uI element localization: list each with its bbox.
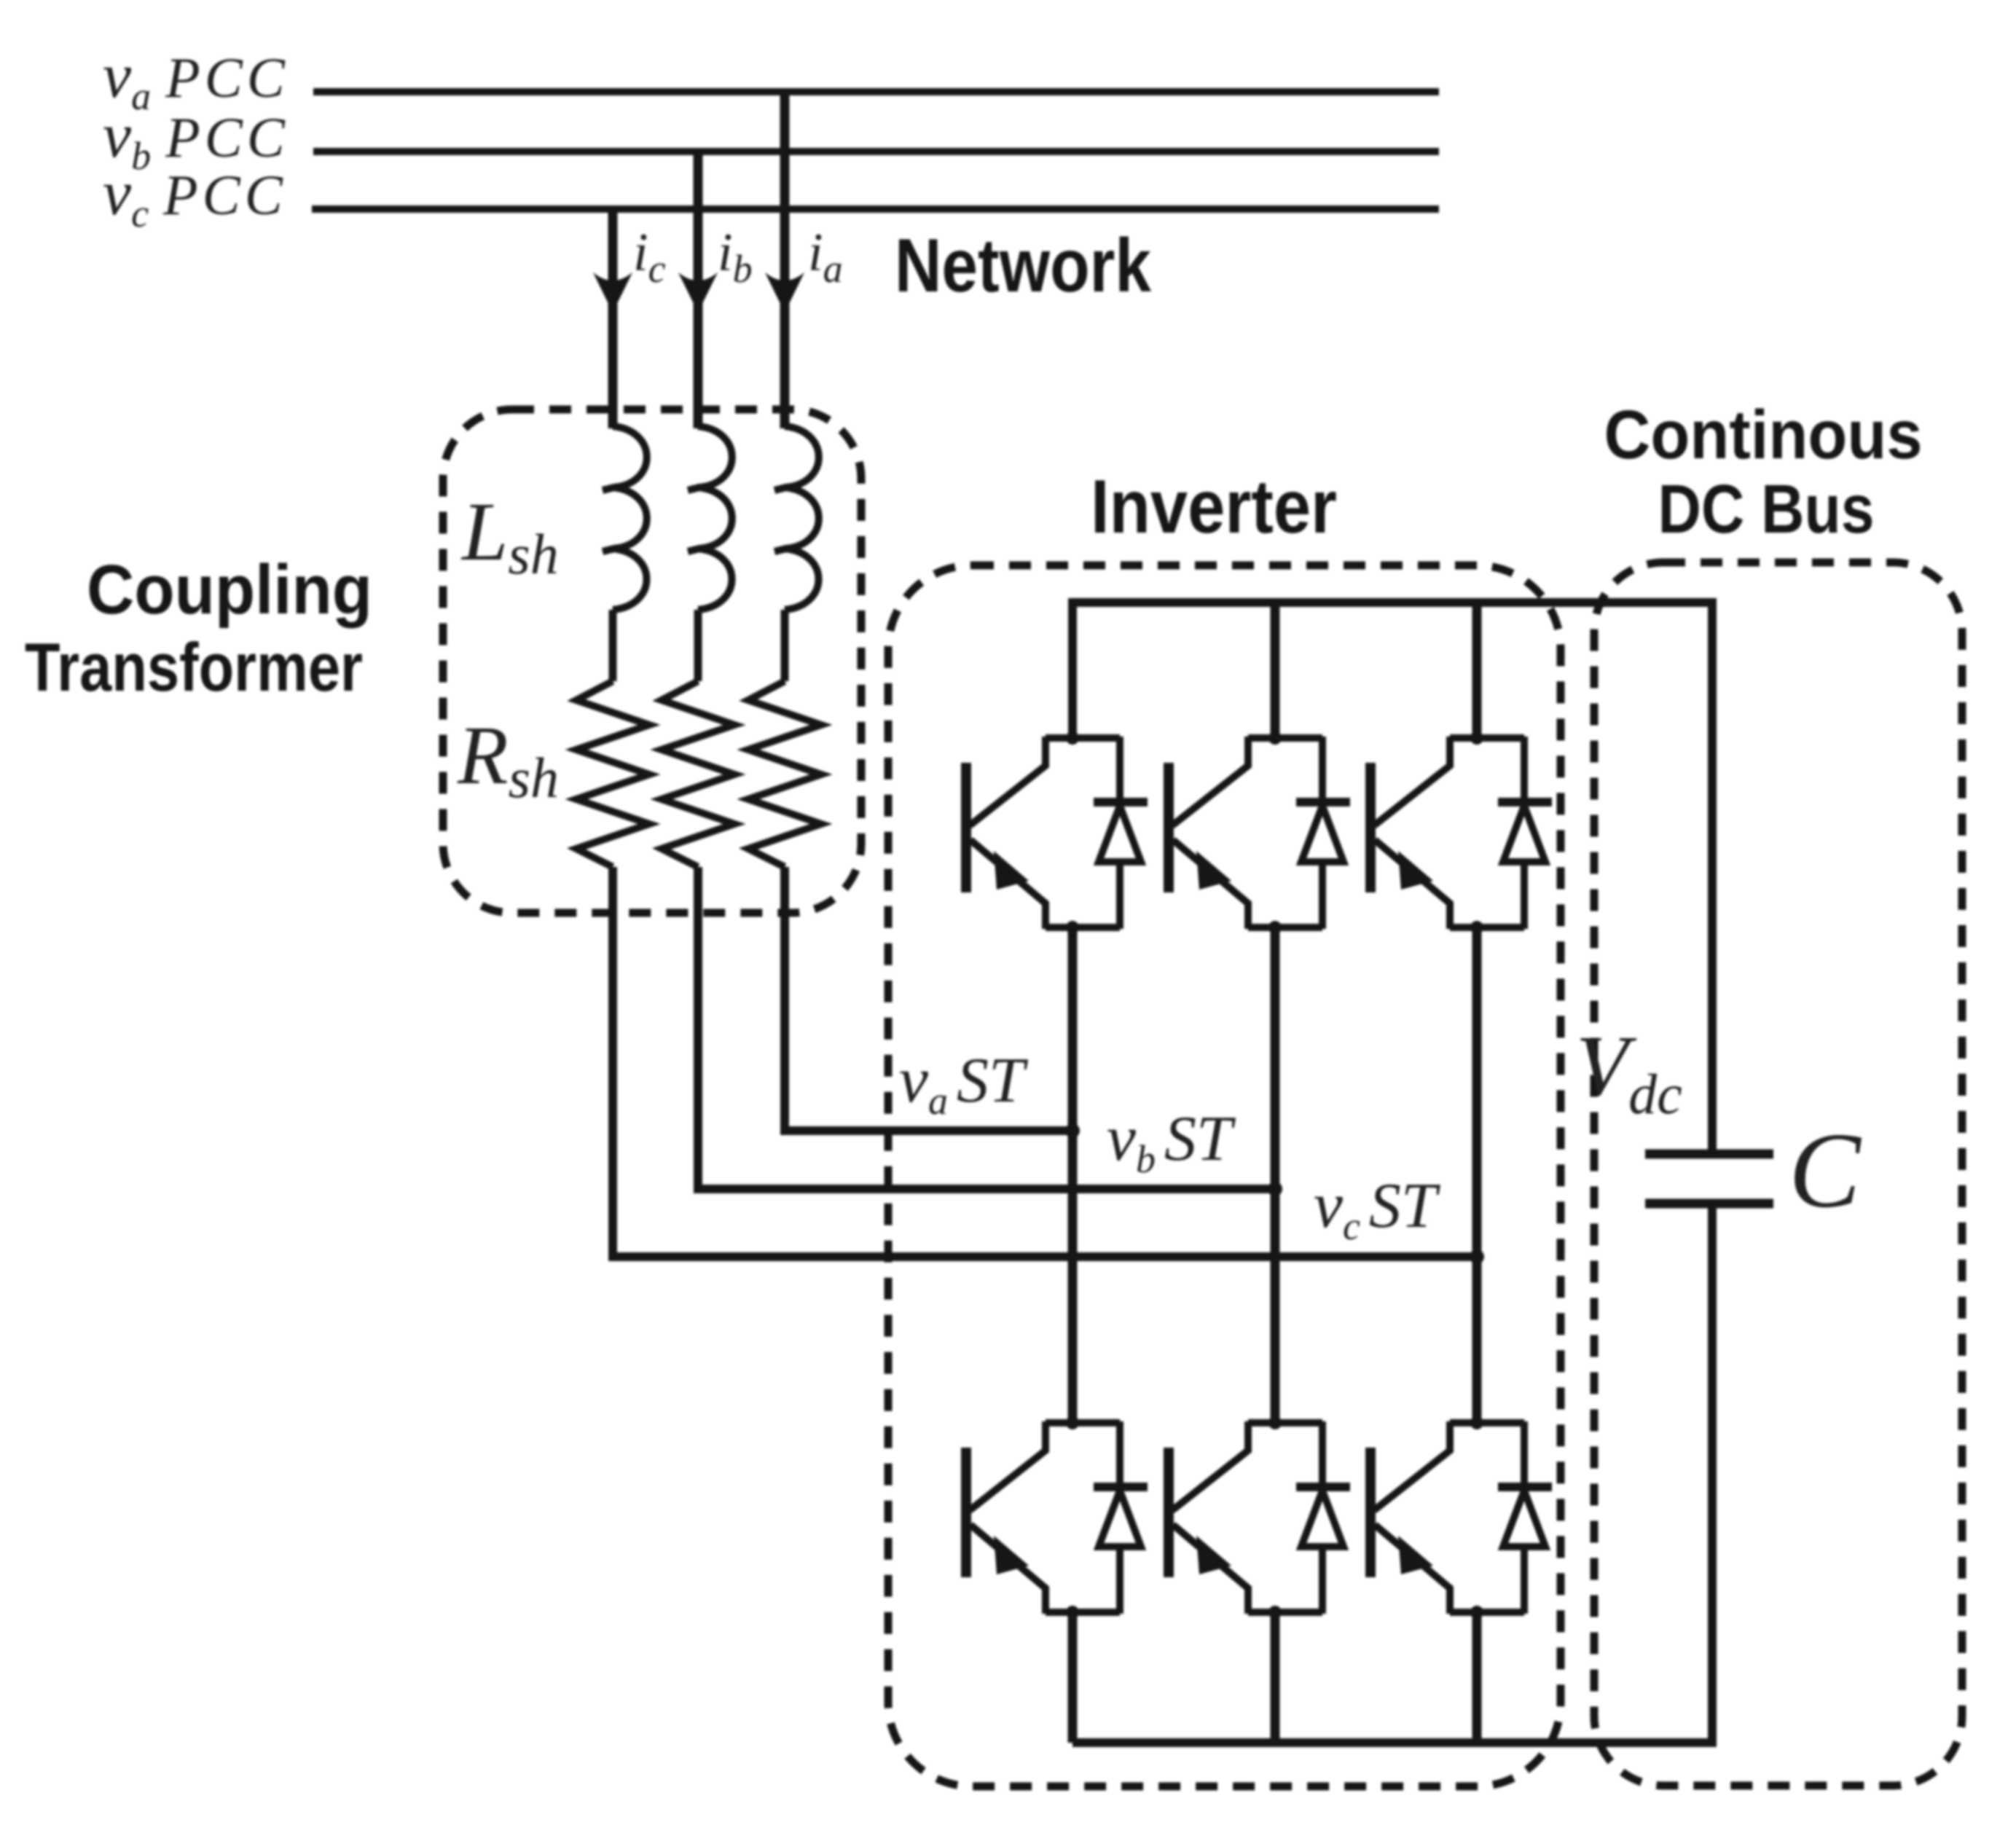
svg-text:DC Bus: DC Bus — [1658, 471, 1875, 548]
IGBT S4 with anti-parallel diode, bottom leg1 — [966, 1416, 1148, 1619]
svg-text:Rsh: Rsh — [457, 709, 559, 809]
wire leg2 top drop — [1271, 602, 1280, 738]
wire vaST run: resistor a down and right to leg1 — [785, 867, 1072, 1131]
inductor Lsh phase-b — [688, 426, 732, 610]
svg-text:Lsh: Lsh — [460, 485, 559, 586]
inductor Lsh phase-a — [774, 426, 819, 610]
IGBT S1 with anti-parallel diode, top leg1 — [966, 731, 1148, 934]
wire leg3 top drop — [1472, 602, 1482, 738]
wire leg2 bottom stub — [1271, 1612, 1280, 1743]
wire ia drop from phase-a bus — [780, 92, 790, 428]
inductor Lsh phase-c — [603, 426, 647, 610]
resistor Rsh phase-b — [662, 681, 734, 867]
junction dot vcST at leg3 — [1470, 1249, 1484, 1264]
coupling transformer dashed box — [443, 409, 861, 913]
arrow ia — [765, 272, 804, 313]
svg-text:Continous: Continous — [1604, 396, 1923, 474]
svg-text:vcST: vcST — [1314, 1169, 1441, 1248]
svg-text:Coupling: Coupling — [87, 551, 372, 629]
svg-text:vcPCC: vcPCC — [103, 158, 287, 235]
IGBT S2 with anti-parallel diode, top leg2 — [1169, 731, 1350, 934]
IGBT S5 with anti-parallel diode, bottom leg2 — [1169, 1416, 1350, 1619]
wire phase-a PCC bus — [313, 88, 1439, 95]
svg-text:Inverter: Inverter — [1091, 465, 1337, 549]
svg-text:ia: ia — [808, 223, 843, 291]
svg-text:vaST: vaST — [899, 1044, 1029, 1123]
svg-text:C: C — [1789, 1111, 1862, 1230]
svg-text:vbST: vbST — [1107, 1102, 1236, 1181]
arrow ib — [678, 272, 718, 313]
svg-text:Vdc: Vdc — [1576, 1018, 1682, 1126]
capacitor C top plate — [1645, 1150, 1773, 1159]
continuous DC bus dashed box — [1594, 562, 1962, 1786]
wire coil to resistor phase-a — [781, 610, 789, 681]
wire ic drop from phase-c bus — [608, 209, 618, 428]
capacitor C bottom plate — [1645, 1199, 1773, 1209]
junction dot vbST at leg2 — [1268, 1182, 1282, 1196]
wire phase-c PCC bus — [312, 205, 1439, 213]
svg-text:ib: ib — [718, 223, 753, 291]
inverter dashed box — [888, 565, 1561, 1786]
wire coil to resistor phase-c — [609, 610, 617, 681]
wire leg1 mid section — [1068, 927, 1078, 1423]
svg-text:ic: ic — [633, 223, 666, 291]
IGBT S3 with anti-parallel diode, top leg3 — [1370, 731, 1552, 934]
wire vcST run: resistor c down and right to leg3 — [613, 867, 1477, 1257]
IGBT S6 with anti-parallel diode, bottom leg3 — [1370, 1416, 1552, 1619]
resistor Rsh phase-a — [748, 681, 821, 867]
wire inverter DC bottom bus — [1072, 1208, 1712, 1743]
resistor Rsh phase-c — [576, 681, 649, 867]
wire leg3 mid section — [1472, 927, 1482, 1423]
wire leg2 mid section — [1271, 927, 1280, 1423]
wire inverter DC top bus — [1072, 602, 1712, 1150]
wire ib drop from phase-b bus — [694, 152, 703, 428]
wire leg3 bottom stub — [1472, 1612, 1482, 1743]
arrow ic — [593, 272, 632, 313]
wire coil to resistor phase-b — [694, 610, 702, 681]
svg-text:Network: Network — [895, 224, 1151, 308]
svg-text:Transformer: Transformer — [25, 629, 363, 705]
wire phase-b PCC bus — [313, 148, 1439, 155]
wire vbST run: resistor b down and right to leg2 — [698, 867, 1275, 1189]
wire leg1 bottom stub — [1068, 1612, 1078, 1743]
junction dot vaST at leg1 — [1065, 1123, 1080, 1138]
